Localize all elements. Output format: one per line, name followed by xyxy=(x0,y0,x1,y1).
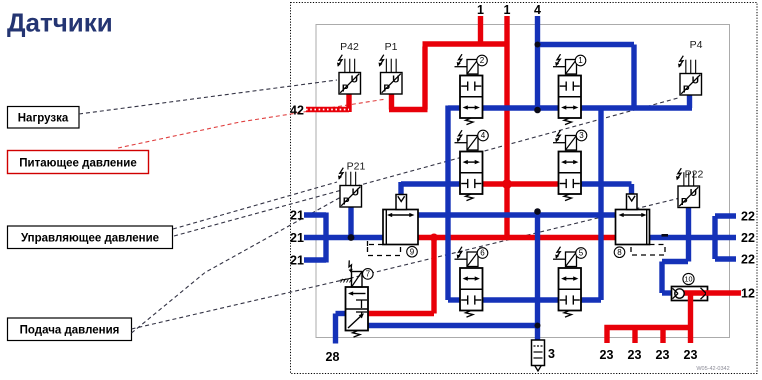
wire: P1 sensor red connector xyxy=(389,94,428,110)
junction: node at (351,237.5) xyxy=(348,234,355,241)
svg-text:22: 22 xyxy=(741,231,755,245)
port label 3 xyxy=(548,347,555,361)
port label 22 b xyxy=(741,231,755,245)
svg-text:Нагрузка: Нагрузка xyxy=(18,113,69,125)
label P1 xyxy=(385,41,398,53)
silencer at port 3 xyxy=(532,340,545,371)
port label 23 b xyxy=(628,348,642,362)
valve 9 dashed pilot box xyxy=(368,241,401,256)
port label 21 b xyxy=(290,231,304,245)
svg-text:10: 10 xyxy=(685,275,693,284)
wire: blue stub valve 2 left xyxy=(448,105,460,110)
wire: red line valve 4 to valve 3 xyxy=(483,181,559,186)
wire: blue vertical x601 xyxy=(598,106,603,301)
sensor P42 (pressure transducer) xyxy=(337,55,361,95)
svg-text:22: 22 xyxy=(741,210,755,224)
svg-text:42: 42 xyxy=(290,104,304,118)
svg-text:23: 23 xyxy=(600,348,614,362)
valve 8 dashed pilot box xyxy=(631,245,665,256)
svg-text:23: 23 xyxy=(656,348,670,362)
svg-text:Питающее давление: Питающее давление xyxy=(19,158,136,170)
junction: node at (537.5,212.5) xyxy=(534,208,541,215)
valve 8 (pilot-operated selector) xyxy=(616,194,650,245)
valve 10 (shuttle/check valve) xyxy=(672,287,708,301)
wire: blue bus y108 valve2-valve1-P4 xyxy=(483,105,693,110)
valve 7 (3/2 solenoid valve, load) xyxy=(340,260,368,337)
svg-text:23: 23 xyxy=(628,348,642,362)
svg-text:P1: P1 xyxy=(385,41,398,53)
label P22 xyxy=(685,169,704,181)
wire: red drop x434 to valve 7 xyxy=(368,238,434,314)
svg-text:P22: P22 xyxy=(685,169,704,181)
svg-text:12: 12 xyxy=(741,287,755,301)
svg-text:6: 6 xyxy=(480,249,485,258)
sensor P1 (pressure transducer) xyxy=(379,55,403,95)
wire: P42 sensor red stub xyxy=(346,94,351,112)
leader line: Подача давления to sensor P22 xyxy=(132,198,683,330)
wire: port 21 comb xyxy=(304,213,383,263)
svg-text:P21: P21 xyxy=(347,161,366,173)
wire: blue valve 8 out to port 22 comb xyxy=(650,235,737,240)
port label 22 c xyxy=(741,253,755,267)
wire: blue header y44.5 to x634 xyxy=(538,45,635,109)
designator circle 7 xyxy=(363,269,374,280)
designator circle 3 xyxy=(576,130,587,141)
wire: P21 sensor blue stub xyxy=(348,207,353,238)
wire: port 28 blue connector xyxy=(336,314,346,344)
svg-text:U: U xyxy=(690,188,697,199)
junction: node at (537.5,110) xyxy=(534,107,541,114)
sensor P22 (pressure transducer) xyxy=(676,168,700,208)
callout box: Подача давления xyxy=(8,318,132,341)
svg-text:Управляющее давление: Управляющее давление xyxy=(21,233,159,245)
port label 21 c xyxy=(290,254,304,268)
wire: valve 9 pilot line to valve 4 xyxy=(401,182,460,196)
designator circle 8 xyxy=(614,247,625,258)
svg-text:8: 8 xyxy=(617,248,622,257)
svg-text:3: 3 xyxy=(548,347,555,361)
svg-text:23: 23 xyxy=(684,348,698,362)
svg-text:P: P xyxy=(343,197,350,208)
junction: node at (326,237.5) xyxy=(323,234,330,241)
svg-text:Подача давления: Подача давления xyxy=(20,325,120,337)
wire: port 1 (right) red vertical down to node xyxy=(504,16,509,240)
junction: node at (537.5,325.5) xyxy=(535,323,541,329)
designator circle 10 xyxy=(683,273,694,284)
wire: red header y44 between risers xyxy=(423,41,508,46)
wire: blue link to shuttle valve 10 xyxy=(662,262,688,294)
wire: blue line valve 7 to x537.5 y325.5 xyxy=(368,323,538,328)
svg-text:P4: P4 xyxy=(690,39,703,51)
valve 2 (3/2 solenoid valve) xyxy=(455,54,483,124)
wire: blue shuttle bus y215 valve9-valve8 xyxy=(418,212,616,217)
port label 42 xyxy=(290,104,304,118)
svg-text:P: P xyxy=(383,84,390,95)
svg-text:U: U xyxy=(351,75,358,86)
callout box: Управляющее давление xyxy=(8,226,173,249)
svg-text:21: 21 xyxy=(290,231,304,245)
wire: port 22 comb xyxy=(715,216,736,259)
svg-text:22: 22 xyxy=(741,253,755,267)
leader line: Нагрузка to sensor P42 xyxy=(79,80,337,114)
valve 1 (3/2 solenoid valve) xyxy=(553,54,581,124)
svg-text:U: U xyxy=(352,188,359,199)
wire: port 42 dotted red line xyxy=(306,107,349,112)
valve 3 (3/2 solenoid valve) xyxy=(553,130,581,200)
svg-text:2: 2 xyxy=(480,56,485,65)
leader line: Управляющее давление to sensor P21 xyxy=(173,182,337,229)
callout box: Питающее давление (red) xyxy=(8,151,149,174)
valve 4 (3/2 solenoid valve) xyxy=(455,130,483,200)
svg-text:21: 21 xyxy=(290,254,304,268)
valve 6 (3/2 solenoid valve) xyxy=(455,247,483,317)
wire: red port 23 header xyxy=(607,328,691,344)
port label 28 xyxy=(326,350,340,364)
svg-text:W05-42-0342: W05-42-0342 xyxy=(696,366,729,372)
wire: red line valve 9 to valve 8 y237.5 xyxy=(418,235,616,240)
svg-text:P42: P42 xyxy=(340,41,359,53)
wire: blue stub valve 5 right xyxy=(581,297,601,302)
label P4 xyxy=(690,39,703,51)
svg-text:1: 1 xyxy=(504,3,511,17)
port label 1 (left) xyxy=(477,3,484,17)
designator circle 4 xyxy=(478,130,489,141)
wire: P4 sensor blue stub xyxy=(687,95,692,108)
sensor P21 (pressure transducer) xyxy=(338,168,362,208)
designator circle 9 xyxy=(407,246,418,257)
designator circle 6 xyxy=(477,248,488,259)
sensor P4 (pressure transducer) xyxy=(678,56,702,96)
svg-text:P: P xyxy=(683,85,690,96)
leader line: Питающее давление to sensor P1 (red) xyxy=(118,99,386,148)
port label 21 a xyxy=(290,209,304,223)
svg-text:P: P xyxy=(342,84,349,95)
junction: red node at (434,237.5) xyxy=(430,234,438,242)
svg-text:1: 1 xyxy=(578,56,583,65)
wire: valve 3 to valve 8 pilot xyxy=(581,184,632,196)
svg-text:Датчики: Датчики xyxy=(7,8,113,38)
wire: blue vertical x448 xyxy=(445,106,450,301)
wire: blue line y300 valves 6-5 xyxy=(448,297,559,302)
svg-text:4: 4 xyxy=(534,3,541,17)
wire: red riser x425 from P1 line to header xyxy=(422,47,427,110)
leader line: Управляющее давление to sensor P4 xyxy=(174,98,678,236)
svg-text:9: 9 xyxy=(410,247,415,256)
designator circle 2 xyxy=(477,55,488,66)
port label 23 d xyxy=(684,348,698,362)
svg-text:5: 5 xyxy=(579,249,584,258)
junction: node at (537.5,44.5) xyxy=(535,42,541,48)
port label 22 a xyxy=(741,210,755,224)
svg-text:7: 7 xyxy=(366,270,371,279)
wire: red drop to 23 header xyxy=(688,300,693,328)
port label 23 a xyxy=(600,348,614,362)
designator circle 5 xyxy=(576,248,587,259)
svg-text:28: 28 xyxy=(326,350,340,364)
svg-text:U: U xyxy=(692,76,699,87)
svg-text:21: 21 xyxy=(290,209,304,223)
title: Датчики xyxy=(7,8,113,38)
port label 23 c xyxy=(656,348,670,362)
junction: red node at (507,184) xyxy=(502,179,512,189)
wire: red port 12 line xyxy=(706,290,741,295)
designator circle 1 xyxy=(575,55,586,66)
outer dashed border of schematic sheet xyxy=(291,3,758,374)
svg-text:1: 1 xyxy=(477,3,484,17)
document number xyxy=(696,366,729,372)
wire: P22 sensor blue drop xyxy=(686,207,691,262)
wire: port 1 (left) red drop xyxy=(478,16,483,47)
svg-text:3: 3 xyxy=(579,131,584,140)
svg-text:U: U xyxy=(392,75,399,86)
wire: blue vertical x537.5 to silencer xyxy=(535,215,540,340)
label P21 xyxy=(347,161,366,173)
port label 4 xyxy=(534,3,541,17)
valve 9 (pilot-operated selector) xyxy=(383,195,418,245)
leader line: Подача давления to sensor P21 lower xyxy=(132,197,342,333)
svg-text:4: 4 xyxy=(481,131,486,140)
svg-text:P: P xyxy=(681,197,688,208)
label P42 xyxy=(340,41,359,53)
junction: node at (665,236) xyxy=(662,234,669,237)
port label 1 (right) xyxy=(504,3,511,17)
callout box: Нагрузка xyxy=(8,107,80,129)
inner gray frame xyxy=(316,25,730,338)
wire: port 4 blue vertical xyxy=(535,16,540,110)
valve 5 (3/2 solenoid valve) xyxy=(553,247,581,317)
port label 12 xyxy=(741,287,755,301)
